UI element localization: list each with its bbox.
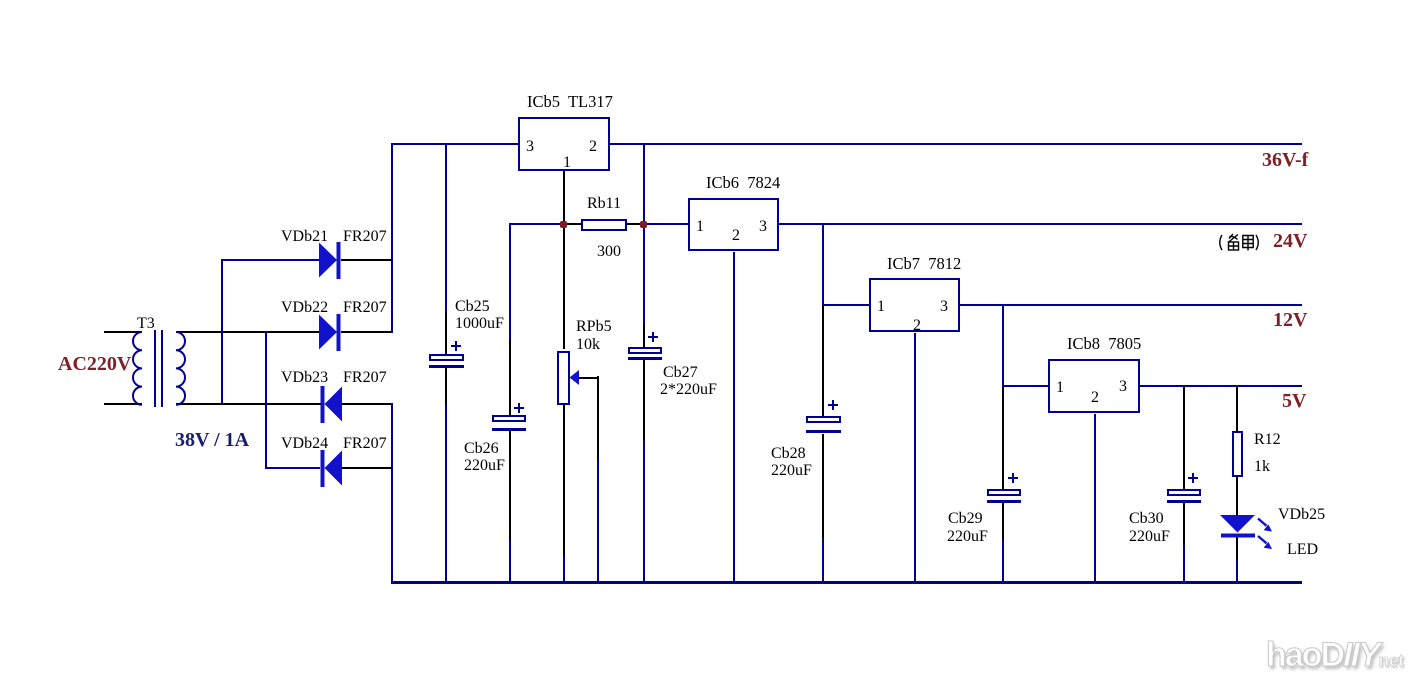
wire Rb11 left stub (565, 223, 581, 225)
wire bridge positive bus (391, 143, 393, 333)
wire VDb23 anode to bus (342, 403, 392, 405)
wire transformer primary bottom lead (104, 403, 142, 405)
wire node to ICb6 pin1 (645, 223, 689, 225)
wire bridge negative bus (391, 403, 393, 583)
label diode VDb24 (281, 436, 328, 452)
label Cb30 (1129, 511, 1164, 527)
diode VDb24 (321, 450, 343, 487)
label ICb7 pin 2 (913, 318, 921, 334)
label LED (1287, 542, 1318, 558)
net label 24V (1273, 231, 1307, 251)
wire Cb26 column top (509, 223, 511, 340)
label VDb24 value FR207 (343, 436, 387, 452)
wire LED lower stub (1236, 537, 1238, 560)
potentiometer RPb5 wiper arrow (570, 370, 580, 385)
wire ICb8 pin2 to rail (1094, 414, 1096, 583)
label ICb6 pin 1 (696, 219, 704, 235)
wire Cb26 column bottom (509, 540, 511, 583)
label AC220V (58, 354, 131, 374)
label ICb7 7812 (887, 256, 961, 273)
wire ICb7 pin2 to rail (914, 333, 916, 583)
label diode VDb22 (281, 300, 328, 316)
wire Cb30 lower stub (1183, 503, 1185, 545)
wire 36V node column upper (643, 143, 645, 225)
label ICb8 pin 3 (1119, 379, 1127, 395)
label ICb6 pin 2 (732, 228, 740, 244)
wire Cb27 lower stub (643, 360, 645, 440)
wire R12 top stub (1236, 386, 1238, 431)
net label 36V-f (1262, 150, 1308, 170)
label ICb5 pin 1 (563, 155, 571, 171)
wire 36V node to Cb27 (643, 225, 645, 325)
label Cb28 (771, 446, 806, 462)
regulator ICb8 7805 box (1048, 359, 1140, 413)
wire Cb30 upper stub (1183, 386, 1185, 489)
label Cb27 (663, 365, 698, 381)
label ICb5 pin 3 (526, 139, 534, 155)
label diode VDb21 (281, 229, 328, 245)
wire Cb25 column top (445, 143, 447, 312)
wire VDb21 cathode to bus (341, 259, 392, 261)
wire Cb27 column bottom (643, 440, 645, 583)
node junction dot left of Rb11 (560, 221, 567, 228)
wire Cb26 lower stub (509, 431, 511, 540)
wire VDb22 cathode to bus (341, 331, 392, 333)
label Cb29 (948, 511, 983, 527)
wire bottom ground rail (391, 581, 1302, 584)
label VDb22 value FR207 (343, 300, 387, 316)
capacitor Cb29 (987, 489, 1021, 496)
wire LED column bottom (1236, 560, 1238, 583)
regulator ICb6 7824 box (688, 198, 779, 251)
wire top rail right segment (ICb5 pin2 to 36V-f) (610, 143, 1302, 145)
wire transformer primary top lead (104, 331, 142, 333)
label ICb5 TL317 (527, 94, 613, 111)
op-amp U1 regulator ICb5 TL317 box (518, 117, 610, 171)
wire 24V drop to ICb7 pin1 (822, 304, 869, 306)
resistor Rb11 body (581, 219, 627, 231)
label Cb30 value 220uF (1129, 529, 1170, 545)
wire vertical AC1-VDb21 tie (221, 259, 223, 405)
wire Cb29 column top (1002, 304, 1004, 387)
wire Cb25 lower stub (445, 368, 447, 404)
wire R12 to LED (1236, 477, 1238, 515)
label Cb25 value 1000uF (455, 316, 504, 332)
capacitor Cb25 (429, 354, 464, 361)
wire ICb5 pin1 vertical (563, 171, 565, 222)
resistor R12 body (1232, 431, 1243, 477)
wire 24V rail (ICb6 pin3 to right) (779, 223, 1302, 225)
wire 12V rail (ICb7 pin3 to right) (960, 304, 1302, 306)
wire adj node to Cb26 branch (509, 223, 563, 225)
wire Cb26 upper stub (509, 340, 511, 415)
label ICb8 7805 (1067, 336, 1141, 353)
diode VDb23 (321, 386, 343, 423)
wire Cb28 column top (822, 223, 824, 306)
wire adj node down to RPb5 (563, 227, 565, 349)
label Cb26 value 220uF (464, 458, 505, 474)
wire 5V rail (ICb8 pin3 to right) (1140, 385, 1302, 387)
wire VDb21 anode lead (221, 259, 319, 261)
label R12 (1254, 432, 1281, 448)
label RPb5 (576, 319, 612, 335)
label Rb11 value 300 (597, 244, 621, 260)
label LED VDb25 (1278, 507, 1325, 523)
label Cb28 value 220uF (771, 463, 812, 479)
potentiometer RPb5 body (557, 351, 570, 405)
wire Cb30 column bottom (1183, 545, 1185, 583)
capacitor Cb30 (1167, 489, 1201, 496)
label ICb8 pin 1 (1056, 380, 1064, 396)
node junction dot right of Rb11 (640, 221, 647, 228)
wire VDb24 anode to bus (342, 467, 392, 469)
wire Cb29 column bottom (1002, 540, 1004, 583)
wire vertical AC2-VDb24 tie (265, 331, 267, 469)
wire Cb29 lower stub (1002, 503, 1004, 540)
label Cb27 value 2*220uF (660, 382, 717, 398)
label 38V / 1A (175, 430, 249, 450)
wire Cb27 upper stub (643, 325, 645, 347)
capacitor Cb28 (806, 416, 841, 423)
capacitor Cb26 (492, 415, 526, 422)
wire Cb29 upper stub (1002, 387, 1004, 489)
wire Cb25 upper stub (445, 312, 447, 354)
wire RPb5 bottom (563, 405, 565, 555)
net label 5V (1282, 391, 1306, 411)
label Cb29 value 220uF (947, 529, 988, 545)
label ICb6 7824 (706, 175, 780, 192)
net label 12V (1273, 310, 1307, 330)
LED VDb25 (1220, 515, 1255, 538)
transformer T3 (133, 330, 185, 407)
wire wiper drop lower (597, 460, 599, 583)
label Cb25 (455, 299, 490, 315)
wire Cb25 column bottom (445, 404, 447, 583)
wire Cb28 lower stub (822, 434, 824, 537)
label ICb7 pin 3 (940, 299, 948, 315)
wire ICb6 pin2 to rail (733, 252, 735, 583)
diode VDb22 (319, 314, 341, 351)
capacitor Cb27 (628, 347, 662, 354)
label ICb8 pin 2 (1091, 390, 1099, 406)
label Rb11 (587, 196, 621, 212)
label diode VDb23 (281, 370, 328, 386)
label ICb6 pin 3 (759, 219, 767, 235)
wire top rail left segment (bridge to ICb5 pin3) (391, 143, 519, 145)
wire RPb5 bottom to rail (563, 555, 565, 583)
label T3 (137, 316, 155, 332)
label Cb26 (464, 441, 499, 457)
watermark (1266, 636, 1404, 675)
label RPb5 value 10k (576, 337, 600, 353)
wire secondary top lead to VDb22 (176, 331, 319, 333)
regulator ICb7 7812 box (869, 278, 960, 332)
wire secondary bottom lead to VDb23 (176, 403, 321, 405)
diode VDb21 (319, 242, 341, 279)
label ICb7 pin 1 (877, 299, 885, 315)
label VDb21 value FR207 (343, 229, 387, 245)
label ICb5 pin 2 (589, 139, 597, 155)
LED emission arrows (1258, 519, 1272, 550)
label R12 value 1k (1254, 459, 1270, 475)
wire 12V drop to ICb8 pin1 (1002, 385, 1048, 387)
label VDb23 value FR207 (343, 370, 387, 386)
wire VDb24 cathode lead (265, 467, 320, 469)
wire Rb11 right stub (627, 223, 641, 225)
wire Cb28 upper stub (822, 306, 824, 416)
label (备用) spare note (1220, 234, 1259, 251)
wire wiper drop upper (597, 376, 599, 460)
wire Cb28 column bottom (822, 537, 824, 583)
wire RPb5 wiper horizontal (578, 377, 599, 379)
